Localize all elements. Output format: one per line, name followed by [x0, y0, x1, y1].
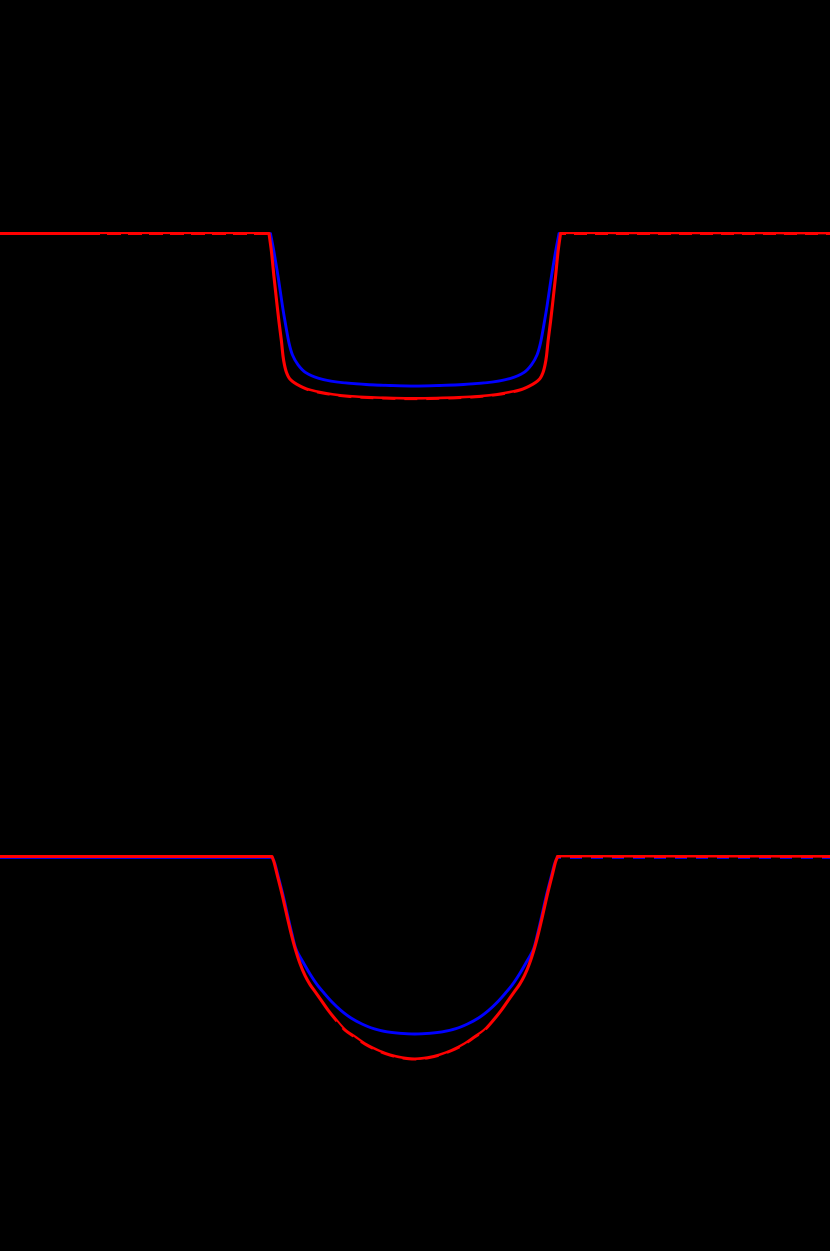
top panel: blue model curve: [0, 234, 830, 387]
bottom panel: black dashed overlay right baseline: [561, 857, 830, 859]
top panel: black dashed overlay left baseline: [100, 234, 268, 236]
top panel: black dashed overlay right baseline: [566, 234, 830, 236]
top panel: red model curve: [0, 234, 830, 399]
bottom panel: black dashed nicks along red transit floor: [336, 1022, 494, 1061]
bottom panel: blue model curve: [0, 857, 830, 1034]
bottom panel: red model curve: [0, 857, 830, 1060]
top panel: black dashed nicks along red transit floor: [308, 391, 522, 400]
